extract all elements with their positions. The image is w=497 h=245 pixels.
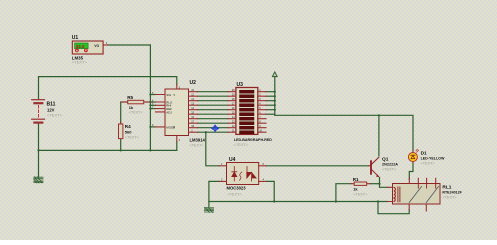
svg-text:<TEXT>: <TEXT>	[382, 167, 397, 171]
svg-text:<TEXT>: <TEXT>	[228, 193, 243, 197]
wire: battery bottom to ground	[38, 123, 40, 177]
U2 left pin stubs	[156, 95, 166, 127]
wire: R1 right to emitter vertical	[370, 183, 380, 185]
battery B11	[32, 100, 63, 123]
relay coil	[394, 188, 395, 202]
svg-text:VO: VO	[94, 44, 99, 48]
relay RL1	[388, 178, 463, 211]
wire: Q1 emitter down to relay coil top	[380, 178, 388, 188]
svg-text:LED-BARGRAPH-RED: LED-BARGRAPH-RED	[234, 138, 272, 142]
blue origin marker	[211, 125, 218, 132]
wire: U2 row3 tap	[150, 104, 155, 106]
resistor R4	[119, 122, 140, 140]
wire: U1 VO output to vertical	[108, 44, 151, 46]
svg-text:<TEXT>: <TEXT>	[125, 135, 140, 139]
svg-text:<TEXT>: <TEXT>	[421, 161, 436, 165]
svg-text:560: 560	[125, 129, 132, 134]
svg-text:U4: U4	[229, 157, 236, 163]
transistor Q1	[369, 157, 399, 177]
svg-text:<TEXT>: <TEXT>	[234, 143, 249, 147]
U4 internal arrow squiggle	[240, 172, 242, 180]
svg-text:R1: R1	[353, 177, 359, 182]
svg-text:R5: R5	[127, 95, 133, 100]
svg-text:1k: 1k	[129, 105, 134, 110]
wire: R4 bottom to rail	[120, 139, 122, 151]
wire: long horizontal to Q1 collector and D1	[275, 115, 413, 151]
svg-text:ADJ: ADJ	[166, 110, 172, 114]
svg-text:LED-YELLOW: LED-YELLOW	[421, 157, 445, 161]
wires: U3 right pins to +bus (rows 1-6)	[266, 92, 275, 115]
wire: U4 pin2 to ground	[209, 181, 219, 206]
wire: U2 row4 tap	[150, 108, 155, 110]
svg-text:33.0: 33.0	[76, 44, 85, 49]
wire: R5 right to U2 pin row	[144, 101, 156, 103]
svg-text:RL1: RL1	[442, 184, 451, 190]
U4 internal triac	[247, 167, 256, 182]
wire: U2 MODE row tap	[150, 126, 155, 128]
svg-text:MOC3023: MOC3023	[227, 186, 247, 191]
wire: D1 cathode to relay contact pin	[409, 163, 413, 179]
op IC U2 LM3914	[152, 80, 206, 147]
relay bottom pins	[409, 204, 426, 211]
relay top contact pins	[409, 178, 435, 183]
wire: loop to relay common pin	[378, 202, 409, 214]
svg-text:<TEXT>: <TEXT>	[442, 196, 457, 200]
U2 bottom V- pin	[176, 136, 178, 142]
U3 right pin numbers	[259, 88, 262, 133]
U3 right pin stubs	[258, 92, 266, 133]
svg-text:<TEXT>: <TEXT>	[129, 110, 144, 114]
LED D1	[408, 149, 445, 165]
wire: U4 pin4 drop to bottom net	[266, 181, 274, 201]
wire: power arrow bus vertical	[274, 76, 276, 115]
optocoupler U4 MOC3023	[219, 157, 266, 196]
wire: ground rail y=150.4	[39, 149, 177, 151]
svg-text:SIG: SIG	[166, 93, 172, 97]
U4 pin stubs	[219, 166, 266, 182]
svg-text:12V: 12V	[47, 107, 55, 112]
wire: battery top to +rail	[39, 77, 177, 100]
wire: R5 left to R4 top	[121, 102, 128, 124]
U3 left pin stubs	[228, 92, 236, 133]
svg-text:1k: 1k	[353, 187, 358, 192]
U4 internal LED	[232, 167, 237, 182]
ground (under U4)	[204, 207, 213, 212]
svg-text:2N2222A: 2N2222A	[382, 163, 398, 167]
ground (bottom left)	[34, 177, 43, 183]
wire: U2 V- pin drop to rail	[176, 142, 178, 151]
U2 top V+ pin	[176, 85, 178, 90]
resistor R5	[121, 95, 150, 114]
relay internal contact stubs	[418, 184, 435, 189]
U2 right pin stubs	[189, 92, 198, 133]
svg-text:RTE24012F: RTE24012F	[442, 191, 462, 195]
wire: R1 left lead drop	[336, 184, 351, 202]
svg-text:<TEXT>: <TEXT>	[72, 60, 88, 65]
resistor R1	[351, 177, 370, 197]
wire: U4 pin6 to Q1 base	[266, 165, 369, 167]
wire: U2 SIG row tap	[150, 94, 155, 96]
svg-text:LM3914: LM3914	[190, 137, 206, 142]
U2 right pin numbers	[191, 88, 194, 133]
wire: U2 pin1 output down to U4	[206, 132, 219, 166]
U3 LED segments	[240, 90, 255, 134]
wire: vertical net x=150.4 from U1 down to ground rail	[149, 45, 151, 150]
LED bargraph U3	[228, 82, 272, 147]
wire: bottom net horizontal	[209, 201, 388, 203]
relay contact blades	[409, 187, 438, 203]
relay coil pins	[388, 187, 393, 201]
svg-text:<TEXT>: <TEXT>	[47, 113, 63, 118]
svg-text:U1: U1	[72, 35, 79, 41]
svg-text:<TEXT>: <TEXT>	[353, 193, 368, 197]
svg-text:U2: U2	[190, 80, 197, 86]
svg-text:U3: U3	[237, 82, 244, 88]
power terminal arrow	[272, 72, 277, 77]
U3 left pin numbers	[232, 88, 235, 133]
U1 LM35 temperature sensor	[72, 35, 108, 64]
wires: U2 outputs to U3 inputs (10 rows)	[198, 92, 229, 133]
wire: Q1 collector vertical	[378, 115, 380, 156]
svg-text:<TEXT>: <TEXT>	[190, 143, 205, 147]
